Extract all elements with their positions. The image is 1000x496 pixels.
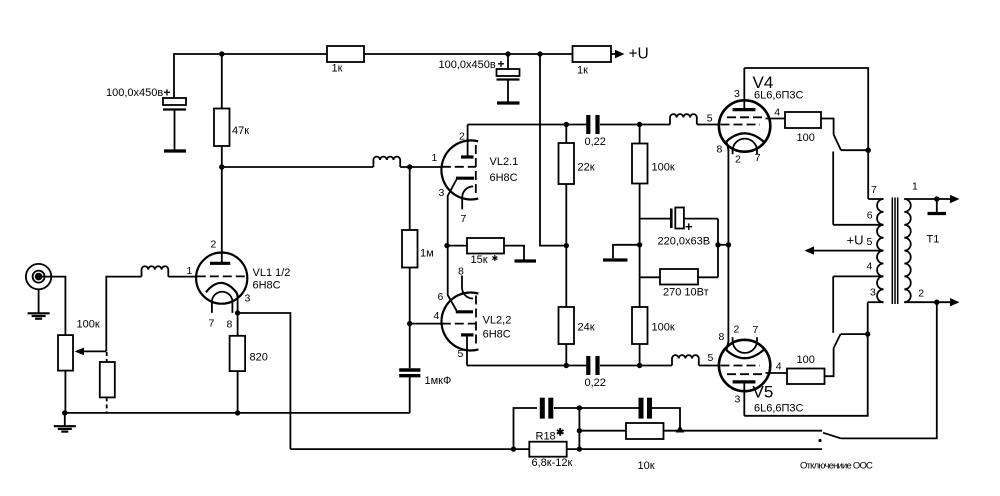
control grid V4 (dashed) <box>721 124 761 126</box>
wire output to feedback switch <box>841 302 937 438</box>
resistor 47к <box>214 54 249 167</box>
cathode VL1 <box>206 283 238 297</box>
resistor (optional, dashed leads) <box>100 352 115 413</box>
svg-text:100: 100 <box>797 354 815 366</box>
anode VL1 <box>210 262 230 265</box>
+U arrow top <box>611 46 649 63</box>
svg-text:R18: R18 <box>536 431 556 443</box>
inductor L2 (VL2.1 grid) <box>373 157 400 167</box>
grid VL2.2 (dashed) <box>442 323 476 325</box>
resistor 100к (lower) <box>632 277 675 365</box>
inductor L3 (V4 grid) <box>670 114 697 124</box>
resistor 10к <box>579 423 822 472</box>
heater VL2.2 <box>462 276 473 299</box>
wire pot bottom to ground rail <box>64 371 66 413</box>
T1 pin 6 stub (UL tap) <box>833 224 883 226</box>
svg-text:2: 2 <box>734 324 740 336</box>
svg-text:7: 7 <box>871 184 877 196</box>
svg-text:+U: +U <box>629 46 649 63</box>
svg-text:VL1 1/2: VL1 1/2 <box>253 267 291 279</box>
svg-text:15к: 15к <box>471 254 488 266</box>
svg-text:Отключениие ООС: Отключениие ООС <box>800 461 873 472</box>
svg-text:✱: ✱ <box>556 428 565 439</box>
wire ground rail <box>65 412 410 414</box>
grid VL2.1 (dashed) <box>442 166 476 168</box>
svg-text:6: 6 <box>867 210 873 222</box>
resistor R18 6,8к-12к <box>529 428 822 470</box>
svg-text:VL2.1: VL2.1 <box>490 156 519 168</box>
T1 pin 7 stub <box>868 198 883 200</box>
node VL2 cathodes <box>444 243 449 248</box>
switch V4 (triode/UL) <box>821 119 871 225</box>
svg-text:0,22: 0,22 <box>585 377 606 389</box>
svg-text:7: 7 <box>753 324 759 336</box>
node ground rail left <box>62 410 67 415</box>
wire VL1 plate lead <box>221 167 223 262</box>
triode VL1 1/2 <box>187 239 291 331</box>
svg-text:6Н8С: 6Н8С <box>253 280 281 292</box>
resistor 24к <box>559 246 595 366</box>
svg-text:3: 3 <box>870 287 876 299</box>
T1 pin 1 output <box>904 198 953 200</box>
anode V4 <box>733 108 756 111</box>
wire top B+ rail <box>174 54 573 98</box>
node 820 bottom <box>235 410 240 415</box>
triode VL2.2 <box>434 246 512 366</box>
svg-text:6: 6 <box>438 291 444 303</box>
svg-text:1: 1 <box>432 152 438 164</box>
capacitor C1 100,0x450в <box>106 86 186 152</box>
node 100к top <box>637 122 642 127</box>
wire B+ to splitter loads <box>540 54 566 246</box>
ground (rail) <box>54 413 76 432</box>
resistor 1м <box>402 167 434 324</box>
anode VL2.2 <box>461 333 474 336</box>
svg-text:100к: 100к <box>652 322 675 334</box>
cathode VL2.1 <box>456 177 474 180</box>
capacitor 220,0x63В <box>640 208 718 248</box>
node 22к top <box>564 122 569 127</box>
wire VL1 cathode to feedback <box>238 313 291 449</box>
svg-text:24к: 24к <box>578 322 595 334</box>
wire cathode bus V4-V5 <box>727 150 729 341</box>
T1 pin 4 stub <box>833 275 883 277</box>
capacitor 0,22 (lower) <box>585 356 606 389</box>
node VL2.2 grid <box>407 321 412 326</box>
anode V5 <box>733 380 756 383</box>
svg-text:47к: 47к <box>232 125 249 137</box>
node VL1 cathode <box>235 310 240 315</box>
transformer T1 secondary <box>904 199 910 302</box>
svg-text:100к: 100к <box>652 162 675 174</box>
svg-text:100: 100 <box>797 132 815 144</box>
input jack <box>26 264 51 313</box>
cathode VL2.2 <box>456 310 473 313</box>
svg-text:1к: 1к <box>577 65 588 77</box>
svg-text:+: + <box>685 219 693 234</box>
svg-text:6Н8С: 6Н8С <box>490 172 518 184</box>
capacitor 10к parallel <box>579 398 680 431</box>
ground (jack) <box>28 313 50 318</box>
svg-text:100,0х450в: 100,0х450в <box>439 59 496 71</box>
svg-text:5: 5 <box>867 236 873 248</box>
cathode V5 <box>726 350 763 358</box>
wire VL2.1 anode row <box>468 124 587 126</box>
heater V4 <box>733 139 757 155</box>
svg-text:V5: V5 <box>753 383 774 402</box>
potentiometer 100к <box>58 319 106 371</box>
node VL2.1 grid <box>407 164 412 169</box>
resistor 820 <box>230 313 268 413</box>
resistor 270 10Вт <box>640 269 718 299</box>
wire V4 anode to T1 pin7 <box>744 68 868 199</box>
inductor L4 (V5 grid) <box>672 355 699 365</box>
svg-text:VL2,2: VL2,2 <box>483 315 512 327</box>
wire V5 anode to T1 pin3 <box>744 302 867 416</box>
svg-text:1: 1 <box>912 181 918 193</box>
wire VL1 plate to grid VL2.1 <box>222 166 374 168</box>
svg-text:6L6,6П3С: 6L6,6П3С <box>754 403 804 415</box>
svg-text:+U: +U <box>847 233 864 248</box>
svg-text:220,0х63В: 220,0х63В <box>658 236 711 248</box>
T1 pin 5 stub +U center tap <box>808 250 884 252</box>
node 100к bottom <box>637 363 642 368</box>
svg-text:270 10Вт: 270 10Вт <box>663 287 709 299</box>
svg-text:4: 4 <box>867 261 873 273</box>
beam tetrode V5 <box>708 324 804 416</box>
heater V5 <box>733 337 757 353</box>
heater VL2.1 <box>462 186 473 209</box>
svg-text:6L6,6П3С: 6L6,6П3С <box>754 90 804 102</box>
svg-text:1к: 1к <box>332 63 343 75</box>
svg-text:1мкФ: 1мкФ <box>425 375 452 387</box>
svg-text:100,0х450в: 100,0х450в <box>106 87 163 99</box>
svg-text:5: 5 <box>458 348 464 360</box>
svg-text:2: 2 <box>735 154 741 166</box>
switch NFB disable <box>800 433 873 472</box>
svg-text:8: 8 <box>719 331 725 343</box>
wire jack to volume pot <box>42 277 65 336</box>
T1 pin 3 stub <box>868 301 884 303</box>
svg-text:22к: 22к <box>578 162 595 174</box>
svg-text:T1: T1 <box>927 234 940 246</box>
cathode V4 <box>726 133 763 141</box>
resistor 1к (right) <box>537 46 611 77</box>
anode VL2.1 <box>461 155 474 158</box>
resistor 15к <box>447 238 536 266</box>
svg-text:6Н8С: 6Н8С <box>483 329 511 341</box>
svg-text:3: 3 <box>439 187 445 199</box>
transformer T1 primary <box>877 199 883 302</box>
svg-text:8: 8 <box>458 266 464 278</box>
wire bias ground <box>613 245 640 258</box>
svg-text:2: 2 <box>211 239 217 251</box>
svg-text:3: 3 <box>735 394 741 406</box>
svg-text:2: 2 <box>459 131 465 143</box>
node bias network <box>637 242 642 247</box>
capacitor 0,22 (upper) <box>585 115 606 148</box>
switch V5 (triode/UL) <box>825 276 871 376</box>
triode VL2.1 <box>432 125 519 246</box>
capacitor R18 parallel <box>514 398 580 449</box>
heater VL1 <box>212 292 233 313</box>
svg-text:2: 2 <box>918 288 924 300</box>
svg-text:820: 820 <box>250 352 268 364</box>
node 24к bottom <box>564 363 569 368</box>
transformer T1 core <box>892 198 897 305</box>
wire wiper to VL1 grid <box>106 277 141 352</box>
svg-text:3: 3 <box>245 293 251 305</box>
node plate VL1 junction <box>219 164 224 169</box>
svg-text:6,8к-12к: 6,8к-12к <box>532 457 573 469</box>
svg-text:7: 7 <box>209 318 215 330</box>
svg-text:100к: 100к <box>77 319 100 331</box>
svg-text:5: 5 <box>707 113 713 125</box>
screen grid V5 (dashed) <box>727 373 766 375</box>
resistor 100к (upper) <box>632 125 675 278</box>
svg-text:5: 5 <box>708 352 714 364</box>
svg-text:✱: ✱ <box>492 254 499 263</box>
screen grid V4 (dashed) <box>727 116 766 118</box>
svg-text:1: 1 <box>187 265 193 277</box>
svg-text:8: 8 <box>227 319 233 331</box>
resistor 22к <box>559 125 595 246</box>
svg-text:4: 4 <box>776 361 782 373</box>
svg-text:4: 4 <box>434 310 440 322</box>
svg-text:3: 3 <box>734 88 740 100</box>
node feedback mid <box>577 405 582 410</box>
grid VL1 (dashed) <box>197 275 248 277</box>
inductor L1 (VL1 grid) <box>142 266 197 276</box>
resistor 100 (V5 screen) <box>787 354 825 384</box>
resistor 1к (left) <box>327 46 364 75</box>
wire feedback from VL1 cathode <box>290 448 529 450</box>
beam tetrode V4 <box>707 68 804 166</box>
T1 pin 2 output <box>904 301 953 303</box>
svg-text:1м: 1м <box>420 248 434 260</box>
ground (output) <box>936 199 938 212</box>
wire bias to cathode bus <box>717 219 719 278</box>
resistor 100 (V4 screen) <box>785 112 821 144</box>
svg-text:8: 8 <box>717 144 723 156</box>
svg-text:7: 7 <box>461 213 467 225</box>
control grid V5 (dashed) <box>721 365 761 367</box>
wire VL2.2 anode row <box>467 365 587 367</box>
svg-text:4: 4 <box>774 107 780 119</box>
capacitor C2 100,0x450в <box>439 51 520 103</box>
capacitor 1мкФ <box>399 324 451 413</box>
svg-text:10к: 10к <box>638 460 655 472</box>
svg-text:0,22: 0,22 <box>585 136 606 148</box>
